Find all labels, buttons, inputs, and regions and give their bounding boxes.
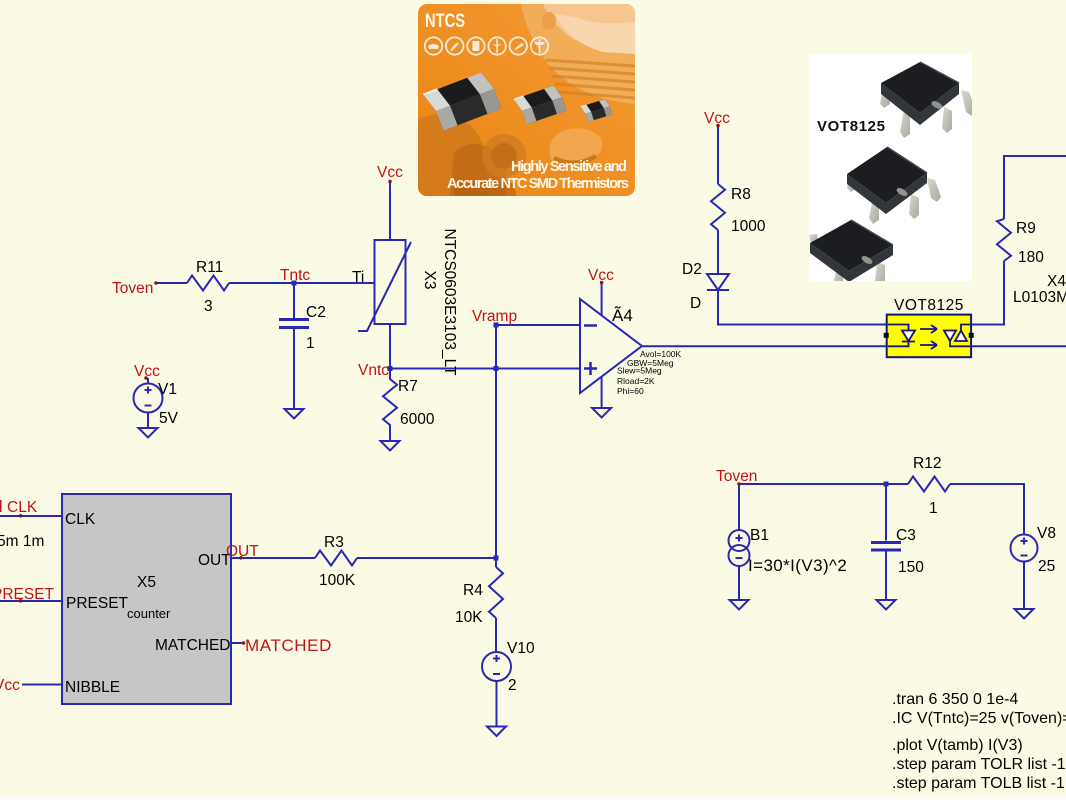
thermistor X3 body xyxy=(375,240,406,324)
svg-text:R8: R8 xyxy=(731,186,751,203)
svg-text:X5: X5 xyxy=(137,574,156,591)
voltage source V10 xyxy=(482,652,511,681)
wire Vramp corner to op-amp minus input xyxy=(496,325,580,567)
wire Vcc flag to R8 xyxy=(717,126,719,184)
ground under C3 xyxy=(877,600,896,610)
svg-text:D2: D2 xyxy=(682,261,702,278)
svg-text:Tntc: Tntc xyxy=(280,267,310,284)
voltage source V1 xyxy=(134,384,163,413)
DIP package top xyxy=(880,62,976,138)
faded engine imagery bottom left xyxy=(418,114,487,196)
svg-text:10K: 10K xyxy=(455,609,483,626)
svg-text:180: 180 xyxy=(1018,249,1044,266)
wire R11 to X3 Ti pin xyxy=(229,282,375,284)
wire R8 to D2 xyxy=(717,230,719,274)
node dot Toven2 xyxy=(737,482,741,486)
red net labels xyxy=(0,110,757,694)
wire PRESET to counter xyxy=(0,600,62,602)
svg-text:VOT8125: VOT8125 xyxy=(894,297,964,314)
svg-text:Vcc: Vcc xyxy=(377,164,403,181)
LED diode xyxy=(902,331,915,342)
svg-text:6000: 6000 xyxy=(400,411,435,428)
thermistor X3 diagonal xyxy=(358,242,411,331)
svg-text:V8: V8 xyxy=(1037,525,1056,542)
svg-text:Highly Sensitive and: Highly Sensitive and xyxy=(511,159,627,175)
svg-text:NTCS0603E3103_LT: NTCS0603E3103_LT xyxy=(441,228,458,376)
resistor R3 xyxy=(315,551,357,566)
wire MATCHED stub xyxy=(231,642,243,644)
junction node Toven2-C3 xyxy=(884,482,889,487)
resistor R12 xyxy=(908,477,950,492)
bottom white strip xyxy=(0,796,1066,800)
capacitor C3 xyxy=(885,484,887,541)
arrow 1 xyxy=(920,325,937,333)
op-amp plus symbol xyxy=(584,362,597,375)
triac xyxy=(944,331,956,342)
resistor R4 xyxy=(489,567,503,618)
svg-text:Ti: Ti xyxy=(352,269,364,286)
op-amp minus symbol xyxy=(584,324,597,327)
junction node R3-R4 xyxy=(494,556,499,561)
DIP package middle xyxy=(847,147,941,224)
svg-text:Toven: Toven xyxy=(112,280,153,297)
counter X5 box xyxy=(62,494,231,704)
wire Vcc flag to V1 xyxy=(147,378,149,384)
node dot MATCHED xyxy=(242,641,246,645)
wire Vntc to op-amp plus input xyxy=(390,368,580,370)
svg-text:1000: 1000 xyxy=(731,218,766,235)
wire X3 bottom to Vntc node xyxy=(389,324,391,369)
svg-text:CLK: CLK xyxy=(65,511,96,528)
svg-text:V1: V1 xyxy=(158,381,177,398)
svg-text:L0103ME: L0103ME xyxy=(1013,289,1066,306)
svg-text:Vcc: Vcc xyxy=(0,677,20,694)
wire V1 to ground xyxy=(147,413,149,429)
resistor R8 xyxy=(711,184,725,230)
ground under B1 xyxy=(730,600,749,610)
svg-text:CLK: CLK xyxy=(7,499,38,516)
voltage source V8 xyxy=(1011,535,1038,562)
wire Vcc to X3 top xyxy=(389,182,391,240)
svg-text:3: 3 xyxy=(204,298,213,315)
node dot Vcc opamp xyxy=(600,281,604,285)
NTCS product banner image xyxy=(418,4,635,196)
resistor R11 xyxy=(187,276,229,291)
svg-text:Vcc: Vcc xyxy=(704,110,730,127)
svg-text:5m 1m: 5m 1m xyxy=(0,533,44,550)
svg-text:.step param TOLB list -1 0 1: .step param TOLB list -1 0 1 xyxy=(892,775,1066,792)
svg-text:I=30*I(V3)^2: I=30*I(V3)^2 xyxy=(748,556,847,575)
icon row xyxy=(425,37,548,54)
svg-text:.step param TOLR list -1 0 1: .step param TOLR list -1 0 1 xyxy=(892,756,1066,773)
wire V10 to ground xyxy=(496,681,498,727)
svg-text:Phi=60: Phi=60 xyxy=(617,386,644,396)
wire optocoupler to R9 xyxy=(971,261,1004,325)
pin square left xyxy=(884,333,889,338)
svg-text:5V: 5V xyxy=(159,410,179,427)
wire R12 to V8 xyxy=(950,484,1024,535)
wire R4 to V10 xyxy=(495,618,497,652)
ground under V10 xyxy=(487,727,506,737)
label anchor dots xyxy=(19,124,741,645)
svg-text:OUT: OUT xyxy=(226,543,259,560)
svg-text:1: 1 xyxy=(929,500,938,517)
node dot OUT xyxy=(239,556,243,560)
VOT8125 product photo xyxy=(809,54,972,281)
svg-text:Vcc: Vcc xyxy=(134,363,160,380)
DIP package bottom xyxy=(809,220,893,291)
node dot CLK xyxy=(19,514,23,518)
node dot Vcc V1 xyxy=(144,376,148,380)
svg-text:C2: C2 xyxy=(306,304,326,321)
node dot Vcc X3 xyxy=(388,180,392,184)
node dot Vcc R8 xyxy=(716,124,720,128)
wire C2 to ground xyxy=(293,329,295,409)
svg-text:R11: R11 xyxy=(196,259,223,276)
svg-text:MATCHED: MATCHED xyxy=(245,636,332,655)
arrow 2 xyxy=(920,341,937,349)
svg-text:25: 25 xyxy=(1038,558,1055,575)
ground under V8 xyxy=(1015,609,1034,619)
diode D2 xyxy=(707,274,729,290)
ground under R7 xyxy=(381,441,400,451)
svg-text:MATCHED: MATCHED xyxy=(155,637,231,654)
net CLK cut bar xyxy=(0,500,2,512)
junction node Tntc xyxy=(292,281,297,286)
oil cap highlight xyxy=(550,128,603,163)
svg-text:Slew=5Meg: Slew=5Meg xyxy=(617,366,662,376)
svg-text:Accurate NTC SMD Thermistors: Accurate NTC SMD Thermistors xyxy=(447,176,629,192)
svg-text:Vramp: Vramp xyxy=(472,308,517,325)
SMD chip middle xyxy=(514,84,567,125)
svg-text:V10: V10 xyxy=(507,640,535,657)
wire Toven2 to R12 node xyxy=(739,483,908,485)
svg-text:R12: R12 xyxy=(913,455,941,472)
wire R3 to Vramp line xyxy=(357,557,496,559)
svg-text:Ã4: Ã4 xyxy=(612,306,633,325)
svg-text:VOT8125: VOT8125 xyxy=(817,118,885,135)
svg-text:X4: X4 xyxy=(1047,273,1066,290)
SMD chip large xyxy=(423,70,501,133)
wire R9 to top right edge xyxy=(1004,156,1066,219)
svg-text:.tran 6 350 0 1e-4: .tran 6 350 0 1e-4 xyxy=(892,691,1018,708)
svg-text:100K: 100K xyxy=(319,572,356,589)
resistor R7 xyxy=(383,369,397,442)
svg-text:C3: C3 xyxy=(896,527,916,544)
svg-text:D: D xyxy=(690,295,701,312)
ground under C2 xyxy=(285,409,304,419)
faded car imagery top right xyxy=(521,4,635,104)
svg-text:Vcc: Vcc xyxy=(588,267,614,284)
svg-text:NTCS: NTCS xyxy=(425,11,465,32)
capacitor C2 xyxy=(293,284,295,318)
spice directives xyxy=(892,691,1066,792)
wire op-amp bottom to ground xyxy=(601,377,603,409)
wire C3 to ground xyxy=(885,552,887,601)
svg-text:R7: R7 xyxy=(398,378,418,395)
junction node Vntc xyxy=(388,366,393,371)
ground under op-amp xyxy=(592,408,611,418)
wire V8 to ground xyxy=(1023,562,1025,610)
svg-text:2: 2 xyxy=(508,677,517,694)
wire OUT to R3 xyxy=(231,557,315,559)
wire Vcc to NIBBLE xyxy=(22,684,62,686)
svg-text:counter: counter xyxy=(127,606,171,621)
resistor R9 xyxy=(997,219,1011,261)
LED lead xyxy=(888,325,909,331)
pin square right xyxy=(969,333,974,338)
svg-text:150: 150 xyxy=(898,559,924,576)
svg-text:1: 1 xyxy=(306,335,315,352)
wire B1 to ground xyxy=(738,566,740,600)
wire op-amp output to right edge xyxy=(642,345,1066,347)
op-amp U4 triangle xyxy=(580,299,642,393)
SMD chip small xyxy=(581,98,613,122)
svg-text:R3: R3 xyxy=(324,534,344,551)
wire Toven2 to B1 xyxy=(738,484,740,531)
svg-text:R4: R4 xyxy=(463,582,483,599)
wire CLK to counter xyxy=(0,515,62,517)
svg-text:NIBBLE: NIBBLE xyxy=(65,679,120,696)
svg-text:Rload=2K: Rload=2K xyxy=(617,376,655,386)
svg-text:PRESET: PRESET xyxy=(0,586,55,603)
junction node Vramp crossing xyxy=(494,366,499,371)
source B1 circles xyxy=(729,530,750,551)
wire Toven to R11 xyxy=(156,282,187,284)
svg-text:.IC V(Tntc)=25 v(Toven)=25: .IC V(Tntc)=25 v(Toven)=25 xyxy=(892,710,1066,727)
svg-text:.plot V(tamb) I(V3): .plot V(tamb) I(V3) xyxy=(892,737,1023,754)
svg-text:Toven: Toven xyxy=(716,468,757,485)
junction node Vramp corner xyxy=(494,323,499,328)
svg-text:R9: R9 xyxy=(1016,220,1036,237)
svg-text:PRESET: PRESET xyxy=(66,595,129,612)
wire Vcc flag to op-amp top xyxy=(601,283,603,316)
optocoupler U-VOT8125 yellow box xyxy=(884,315,974,358)
svg-text:Vntc: Vntc xyxy=(358,362,389,379)
ground under V1 xyxy=(139,428,158,438)
node dot Toven left xyxy=(154,281,158,285)
node dot PRESET xyxy=(19,599,23,603)
svg-text:B1: B1 xyxy=(750,527,769,544)
svg-text:X3: X3 xyxy=(421,271,438,290)
wire D2 to optocoupler anode xyxy=(718,290,887,325)
